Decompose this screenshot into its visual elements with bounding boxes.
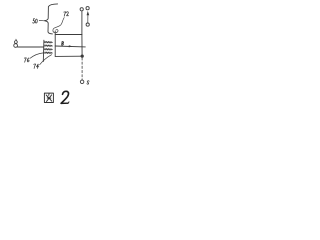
label 74 — [34, 64, 39, 68]
pointer ring (top right) — [86, 7, 89, 10]
figure number 2 — [61, 91, 69, 103]
input terminal (left), tick + two rings — [15, 39, 17, 40]
pointer line — [87, 15, 89, 23]
label 72 — [64, 12, 69, 16]
top wire: coil to right bus — [55, 34, 82, 36]
label S — [87, 81, 89, 84]
figure label box (zu) — [44, 93, 53, 102]
leader for 74 — [40, 55, 52, 65]
label 50 — [33, 19, 38, 23]
leader for 50 — [39, 19, 44, 21]
small ring (pointer target) — [86, 23, 89, 26]
winding squiggle row 3 — [45, 48, 53, 50]
arrowhead pointing up at ring — [87, 11, 90, 15]
winding squiggle row 1 — [45, 41, 53, 43]
leader for 76 — [30, 53, 44, 59]
coil right bus (72) — [54, 31, 56, 56]
label 76 — [24, 58, 29, 62]
dashed lead down to bottom terminal — [81, 58, 83, 80]
output terminal ring (top) — [80, 8, 83, 11]
junction dot — [81, 55, 84, 58]
brace (group 50) — [44, 4, 57, 34]
right bus mid: corner down to junction — [81, 35, 83, 57]
wire: input to coil — [18, 46, 44, 48]
bottom terminal ring — [80, 80, 84, 84]
leader for 72 — [53, 18, 64, 33]
label B — [62, 42, 64, 46]
arrowhead on middle wire — [69, 45, 72, 47]
winding squiggle row 4 — [45, 52, 53, 54]
middle wire with arrow — [55, 45, 85, 48]
coil left bus — [42, 40, 45, 61]
bottom wire: coil to junction — [55, 55, 82, 57]
winding squiggle row 2 — [45, 45, 53, 47]
right bus upper: terminal down to corner — [81, 11, 83, 35]
